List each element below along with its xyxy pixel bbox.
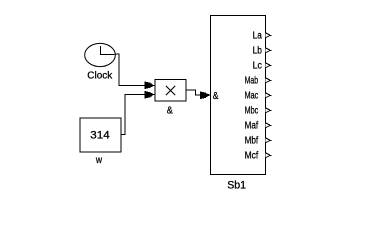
arrowhead subsystem input (200, 91, 209, 99)
svg-text:314: 314 (90, 130, 109, 142)
svg-text:Lb: Lb (253, 45, 263, 56)
svg-text:Lc: Lc (253, 60, 262, 71)
svg-text:Sb1: Sb1 (227, 179, 246, 191)
wire product to subsystem input (186, 90, 211, 95)
svg-text:Clock: Clock (87, 69, 113, 81)
product block U1 (multiply) (155, 80, 186, 102)
subsystem block Sb1 (211, 16, 266, 175)
output port 8 chevron (266, 138, 272, 143)
output port 3 chevron (266, 63, 272, 68)
svg-text:Mbf: Mbf (245, 135, 259, 146)
arrowhead product input 1 (145, 81, 154, 89)
output port 1 chevron (266, 33, 272, 38)
svg-text:&: & (167, 105, 173, 116)
svg-text:La: La (253, 30, 263, 41)
svg-text:Maf: Maf (245, 120, 259, 131)
output port 4 chevron (266, 78, 272, 83)
constant block 314 (80, 118, 121, 152)
arrowhead product input 2 (145, 91, 154, 99)
output port 6 chevron (266, 108, 272, 113)
output port 2 chevron (266, 48, 272, 53)
svg-text:Mac: Mac (245, 90, 259, 101)
clock block Clock (85, 43, 116, 66)
wire clock to product input 1 (115, 54, 155, 86)
svg-text:&: & (213, 91, 219, 102)
svg-text:w: w (95, 155, 103, 166)
svg-text:Mcf: Mcf (245, 150, 259, 161)
svg-text:Mab: Mab (245, 75, 259, 86)
svg-text:Mbc: Mbc (245, 105, 259, 116)
output port 9 chevron (266, 153, 272, 158)
output port 7 chevron (266, 123, 272, 128)
wire 314 to product input 2 (122, 95, 156, 135)
output port 5 chevron (266, 93, 272, 98)
